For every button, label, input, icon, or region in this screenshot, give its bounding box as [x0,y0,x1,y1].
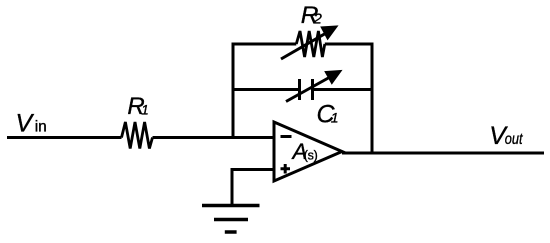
svg-text:1: 1 [331,110,339,126]
wire Vin to R1 [7,136,122,139]
svg-text:1: 1 [141,103,149,118]
ground [202,206,260,233]
resistor R1 [122,122,153,149]
variable arrow of C1 [286,71,342,102]
label Vout [489,122,523,150]
wire top feedback right segment [325,43,374,46]
label R1 [127,93,148,120]
svg-text:2: 2 [313,11,323,28]
svg-text:in: in [35,119,47,136]
svg-text:(s): (s) [304,149,318,163]
wire top feedback left segment [232,43,297,46]
capacitor C1 right plate [311,79,314,100]
resistor R2 [296,31,325,57]
label R2 [301,2,323,29]
wire capacitor branch right [313,88,373,91]
wire op-amp output to Vout [342,152,544,155]
label A(s) gain of op-amp U1 [291,139,318,164]
wire left feedback rail [232,44,235,139]
svg-text:V: V [16,110,35,138]
op-amp non-inverting pin plus sign [281,164,291,174]
label Vin [16,110,47,138]
svg-text:out: out [505,131,523,148]
wire right feedback rail [371,44,374,153]
variable arrow of R2 [281,26,338,59]
op-amp U1 triangle [274,122,342,181]
wire non-inverting input to ground [232,168,274,205]
op-amp inverting pin minus sign [281,135,292,138]
label C1 [317,101,339,129]
wire R1 to inverting input node [153,136,275,139]
capacitor C1 left plate [298,79,301,100]
wire capacitor branch left [233,88,300,91]
